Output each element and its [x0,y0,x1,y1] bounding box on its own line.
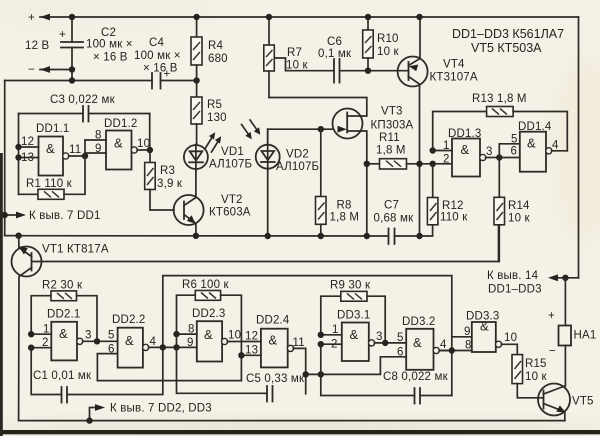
svg-text:DD1.1: DD1.1 [36,123,70,135]
node DD3.1 output / R9 right leg [382,340,388,346]
svg-text:5: 5 [397,332,404,344]
node R11 left / VT3 source [364,161,370,167]
wire +12V top rail [28,12,579,24]
svg-text:2: 2 [331,339,338,351]
svg-text:+: + [548,310,555,322]
wire oscillator section link line y=275.6 [163,276,452,396]
svg-text:1: 1 [443,140,450,152]
svg-text:R4: R4 [208,40,223,52]
node DD1.1 output [82,153,88,159]
pin 1 DD2.1 [31,324,51,336]
pin 9 DD3.3 [452,326,472,338]
pin 9 label DD2.3 [187,337,194,349]
gate DD3.1 [337,310,406,362]
node DD1.3 output / DD1.4 inputs / R14 top [496,154,502,160]
node pin1 / R13 leg [430,147,436,153]
node HA1 branch [562,275,568,281]
svg-text:11: 11 [69,144,81,156]
svg-text:12: 12 [21,136,34,148]
svg-text:DD2.1: DD2.1 [47,309,81,321]
svg-text:R1 110 к: R1 110 к [26,178,73,190]
svg-text:R14: R14 [508,200,530,212]
pin 9 DD1.2 [85,143,106,155]
wire DD2.2 pin6 gating path [97,354,241,381]
node VT1 collector on rail [15,233,21,239]
svg-text:VD2: VD2 [286,149,309,161]
node R8 bottom on rail [318,233,324,239]
svg-text:C3 0,022 мк: C3 0,022 мк [50,94,116,106]
wire minus horizontal bus y=80.5 [5,80,197,82]
svg-text:11: 11 [293,337,305,349]
svg-text:4: 4 [552,140,559,152]
svg-text:DD2.2: DD2.2 [112,314,146,326]
resistor R4 [191,17,228,81]
svg-text:&: & [46,141,55,156]
pin 5 DD1.4 [499,134,520,158]
wire C3 right leg down to DD1.2 output [149,114,151,151]
svg-text:3,9 к: 3,9 к [157,178,183,190]
svg-text:680: 680 [208,53,228,65]
node VT4 collector top [416,14,422,20]
node C2 top [69,14,75,20]
node K vyv.7 on bottom rail [86,417,92,423]
svg-text:6: 6 [511,146,518,158]
svg-text:100 мк ×: 100 мк × [134,50,181,62]
node pin2 DD3.1 [318,341,324,347]
wire VT4 emitter down to R11 node and ground rail [419,85,421,237]
svg-text:9: 9 [95,143,102,155]
svg-text:12 В: 12 В [25,40,50,52]
capacitor C2 [59,17,133,81]
capacitor C1 [31,347,163,402]
svg-text:6: 6 [397,347,404,359]
node VD2 cathode on rail [265,233,271,239]
svg-text:5: 5 [108,330,115,342]
gate DD2.3 [192,308,261,362]
gate DD1.4 [518,121,567,172]
node DD2.4 output branch to DD3 gating [303,371,309,377]
svg-text:VD1: VD1 [221,146,244,158]
pin 8 DD2.3 [177,324,197,336]
svg-text:12: 12 [245,331,258,343]
label parts list header [452,27,564,55]
wire DD1.1 input vertical [18,114,20,195]
svg-text:2: 2 [443,154,450,166]
svg-text:10 к: 10 к [508,213,531,225]
svg-text:C1 0,01 мк: C1 0,01 мк [33,370,92,382]
pin 1 DD3.1 [321,324,342,336]
resistor R9 [321,280,385,343]
pin 2 DD2.1 [31,337,51,349]
node R7 top [266,14,272,20]
resistor R1 [19,156,86,199]
svg-text:1: 1 [332,324,339,336]
wire VD2 anode to VT3 gate [268,129,333,144]
svg-text:DD3.1: DD3.1 [337,310,371,322]
pin 13 DD2.4 [241,345,261,357]
resistor R11 [367,132,452,169]
capacitor C4 [134,37,181,89]
transistor VT5 [538,384,594,421]
node C2 bottom on bus [69,77,75,83]
svg-text:&: & [461,142,470,157]
svg-text:DD1–DD3: DD1–DD3 [488,284,542,296]
wire K vyv.7 DD2 DD3 arrow [90,403,212,421]
svg-text:10: 10 [504,332,517,344]
resistor R13 [433,93,568,151]
svg-text:−: − [549,346,556,358]
pin 12 label DD2.4 [245,331,258,343]
svg-text:R15: R15 [525,358,547,370]
svg-text:R3: R3 [160,165,175,177]
svg-text:8: 8 [465,340,472,352]
svg-text:R5: R5 [207,99,222,111]
svg-text:VT3: VT3 [381,106,403,118]
svg-text:R2 30 к: R2 30 к [42,280,83,292]
capacitor C5 [177,334,305,401]
page border left [0,153,3,436]
svg-text:VT2: VT2 [221,194,243,206]
capacitor C3 [19,94,150,122]
svg-text:DD1.2: DD1.2 [104,118,138,130]
resistor R3 [145,150,183,210]
node pin13 [15,154,21,160]
svg-text:R11: R11 [379,132,400,144]
svg-text:+: + [59,29,66,41]
svg-text:1: 1 [43,324,50,336]
svg-text:−: − [28,64,35,76]
svg-text:АЛ107Б: АЛ107Б [276,161,319,173]
svg-text:10: 10 [228,330,241,342]
svg-text:R10: R10 [377,33,399,45]
label K vyv.14 DD1-DD3 with arrow [487,270,579,296]
svg-text:R12: R12 [442,200,464,212]
svg-text:R9 30 к: R9 30 к [330,280,371,292]
sounder HA1 [548,278,596,386]
svg-text:C2: C2 [101,27,116,39]
svg-text:× 16 В: × 16 В [143,63,178,75]
node DD2.2 output / R6 left leg [173,344,179,350]
capacitor C8 [321,344,452,403]
svg-text:3: 3 [376,331,383,343]
page border bottom [0,430,600,434]
resistor R12 [427,164,468,225]
wire minus lead [28,64,72,76]
wire gating DD2.4 out to DD3.2 pin6 [306,357,407,375]
transistor VT4 [368,17,478,87]
svg-text:+: + [28,12,35,24]
node R4 top [193,14,199,20]
transistor VT2 [174,171,251,236]
node VD2/R8/VT3 gate [318,126,324,132]
node VT4 emitter line on rail [416,233,422,239]
gate DD1.2 [104,118,150,170]
svg-text:VT5: VT5 [572,396,594,408]
node pin1 DD3.1 [318,332,324,338]
svg-text:&: & [527,136,536,151]
svg-text:4: 4 [440,339,447,351]
svg-text:&: & [204,327,213,342]
svg-text:130: 130 [207,112,227,124]
wire VT1 base line to R14 bottom [32,225,499,262]
gate DD3.2 [397,316,452,370]
svg-text:0,1 мк: 0,1 мк [318,48,352,60]
pin 6 DD1.4 [499,146,520,158]
svg-text:8: 8 [95,130,102,142]
label 12 V [25,40,50,52]
pin 13 DD1.1 [19,152,39,164]
svg-text:× 16 В: × 16 В [93,52,128,64]
svg-text:КТ603А: КТ603А [209,207,251,219]
wire right power rail down to K vyv.14 junction [578,17,580,278]
resistor R6 [177,279,242,355]
pin 8 DD1.2 [85,130,106,142]
svg-text:2: 2 [42,337,49,349]
svg-text:100 мк ×: 100 мк × [86,39,133,51]
svg-text:C5 0,33 мк: C5 0,33 мк [246,373,305,385]
svg-text:КП303А: КП303А [371,120,414,132]
node gating crosses R9 left leg [318,371,324,377]
svg-text:К выв. 7 DD2, DD3: К выв. 7 DD2, DD3 [110,403,212,415]
node minus / C2 [69,66,75,72]
node K vyv.7 on left rail [1,212,7,218]
svg-text:4: 4 [150,336,157,348]
pin 12 DD1.1 [19,136,39,148]
resistor R5 [191,81,227,145]
svg-text:К выв. 14: К выв. 14 [487,270,539,282]
svg-text:R13 1,8 М: R13 1,8 М [472,93,527,105]
svg-text:НА1: НА1 [574,330,597,342]
node pin12 [15,144,21,150]
gate DD1.1 [36,123,85,176]
svg-text:10 к: 10 к [286,60,309,72]
svg-text:&: & [413,335,422,350]
wire DD1.1 out riser to DD1.2 inputs [84,140,86,156]
gate DD2.4 [256,315,306,394]
svg-text:1,8 М: 1,8 М [376,145,406,157]
wire K vyv.7 DD1 arrow [5,210,101,222]
wire left rail from bus down to lower-left corner [5,81,19,236]
svg-text:&: & [350,327,359,342]
svg-text:&: & [125,333,134,348]
node pin2 / R13 left leg [430,161,436,167]
svg-text:9: 9 [464,326,471,338]
transistor VT1 [12,236,109,420]
node R10 top [365,14,371,20]
node VT3 source on rail [364,233,370,239]
svg-text:13: 13 [245,345,258,357]
node R11 right / VT4 emitter line [416,161,422,167]
capacitor C7 [374,200,415,245]
svg-text:9: 9 [187,337,194,349]
pin 8 DD3.3 [439,340,472,352]
transistor VT3 [269,98,414,237]
LED VD1 [184,132,252,171]
pin 2 DD3.1 [321,339,342,351]
svg-text:C6: C6 [327,36,342,48]
resistor R8 [316,129,360,236]
gate DD3.3 [466,311,517,353]
node DD3.2 output / C8 riser / section wire [449,347,455,353]
node VT2 emitter on rail [193,233,199,239]
svg-text:АЛ107Б: АЛ107Б [209,159,252,171]
svg-text:DD2.4: DD2.4 [256,315,290,327]
svg-text:VT1 КТ817А: VT1 КТ817А [42,244,109,256]
node DD2.1 output / R2 [94,338,100,344]
resistor R7 [264,17,309,98]
node DD1.2 output / R3 top [147,147,153,153]
wire bottom ground rail [19,420,565,421]
svg-text:R6 100 к: R6 100 к [182,279,230,291]
svg-text:C7: C7 [384,200,399,212]
svg-text:10 к: 10 к [377,46,400,58]
node pin8 DD2.3 [173,331,179,337]
svg-text:&: & [114,136,123,151]
svg-text:&: & [269,333,278,348]
svg-text:0,68 мк: 0,68 мк [374,213,415,225]
node R6 right leg / pin13 [238,352,244,358]
svg-text:VT4: VT4 [443,59,465,71]
wire ground rail y=236 [5,225,433,236]
resistor R10 [363,17,400,71]
resistor R15 [501,344,547,398]
svg-text:C4: C4 [149,37,164,49]
svg-text:КТ3107А: КТ3107А [430,72,478,84]
svg-text:DD2.3: DD2.3 [192,308,226,320]
resistor R14 [494,158,531,262]
gate DD2.2 [108,314,197,368]
svg-text:R8: R8 [337,200,352,212]
node R4/R5 on bus [193,77,199,83]
pin 2 label DD1.3 [443,154,450,166]
LED VD2 [242,120,320,236]
svg-text:110 к: 110 к [440,212,468,224]
svg-text:R7: R7 [287,47,302,59]
svg-text:К выв. 7 DD1: К выв. 7 DD1 [29,210,101,222]
node DD2.2 output / C1 riser [160,344,166,350]
svg-text:1,8 М: 1,8 М [330,212,360,224]
pin 1 DD1.3 [433,140,452,152]
svg-text:5: 5 [511,134,518,146]
svg-text:DD3.2: DD3.2 [402,316,436,328]
svg-text:3: 3 [85,330,92,342]
gate DD1.3 [448,128,499,177]
svg-text:3: 3 [486,146,493,158]
svg-text:VT5 КТ503А: VT5 КТ503А [471,41,542,55]
gate DD2.1 [47,309,118,361]
node pin1 DD2.1 [28,331,34,337]
node pin2 DD2.1 [28,345,34,351]
svg-text:13: 13 [21,152,34,164]
resistor R2 [31,280,97,342]
svg-text:&: & [480,319,489,334]
node R10 bottom / C6 / VT4 base [365,68,371,74]
svg-text:10 к: 10 к [525,371,548,383]
svg-text:8: 8 [188,324,195,336]
svg-text:&: & [59,326,68,341]
capacitor C6 [286,36,369,83]
svg-text:DD1–DD3 К561ЛА7: DD1–DD3 К561ЛА7 [452,27,564,41]
svg-text:C8 0,022 мк: C8 0,022 мк [383,371,449,383]
